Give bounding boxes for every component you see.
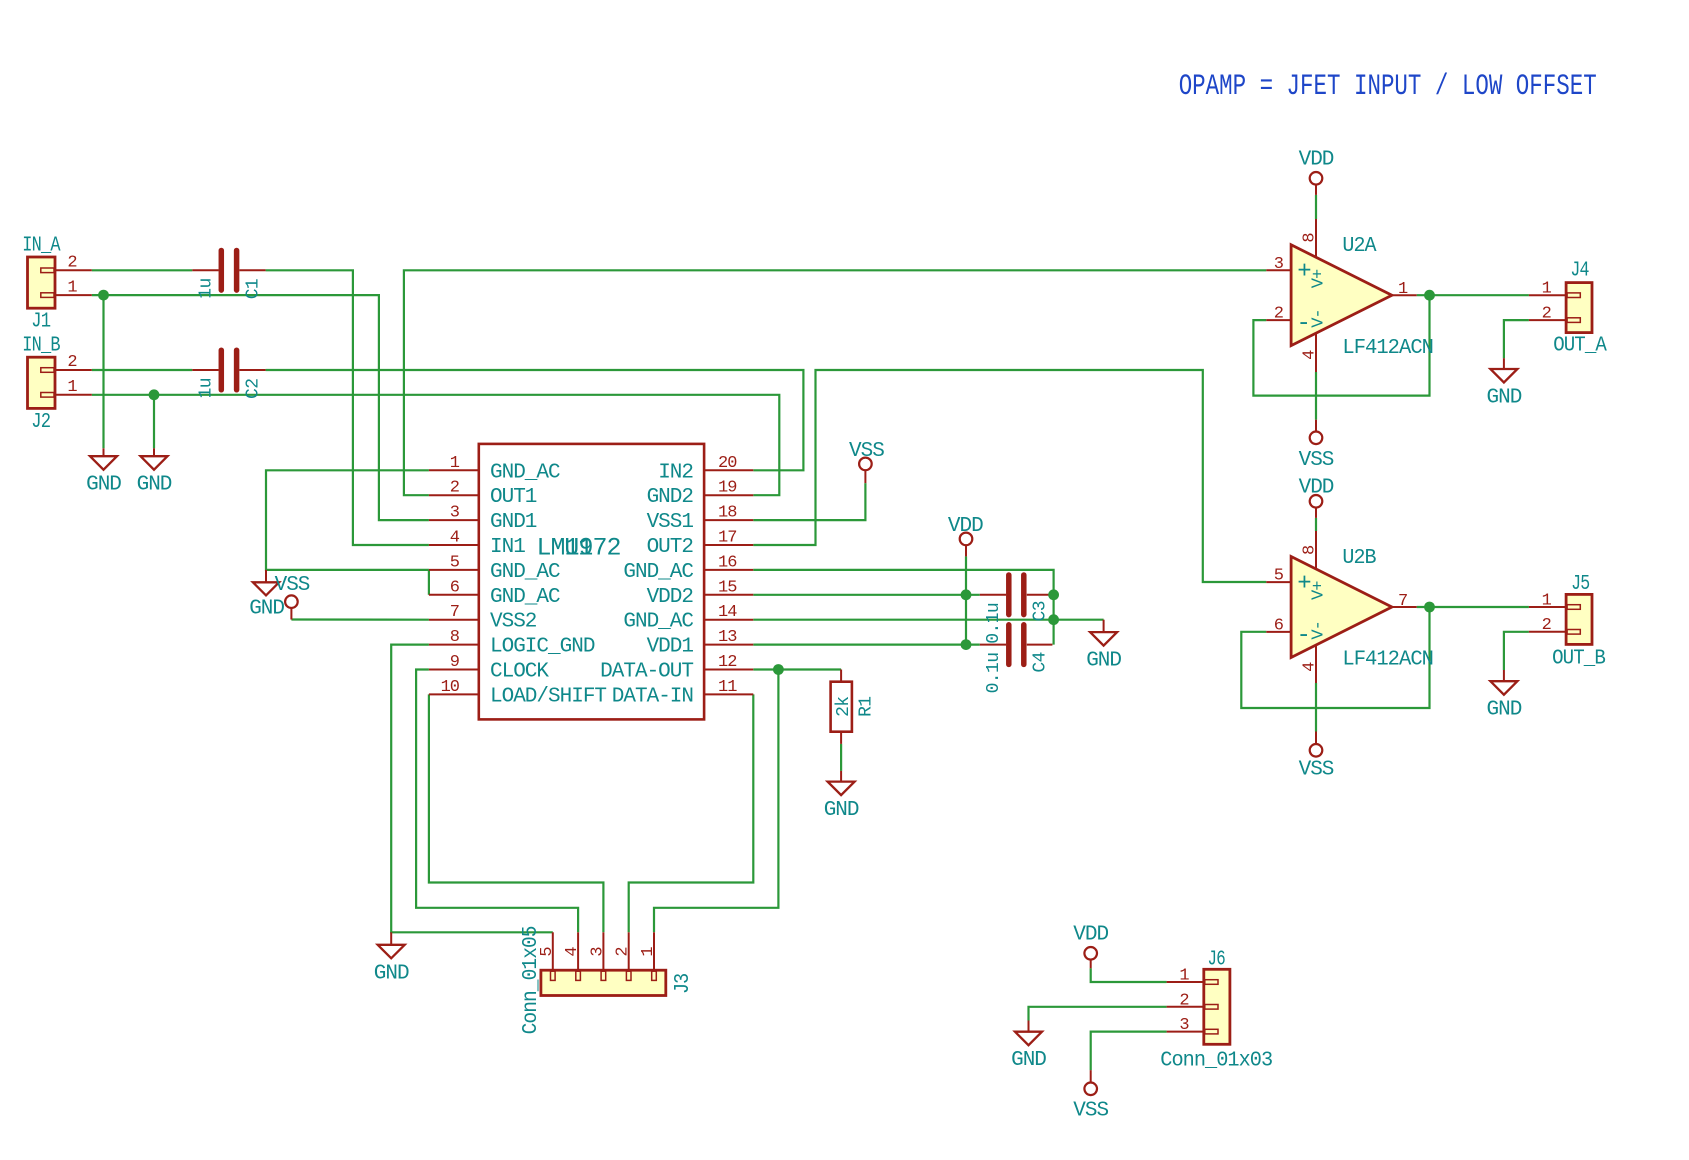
svg-text:3: 3 [1179, 1016, 1189, 1035]
svg-text:5: 5 [1274, 567, 1284, 586]
svg-text:1: 1 [1398, 280, 1408, 299]
svg-text:V+: V+ [1310, 581, 1329, 600]
svg-text:4: 4 [450, 529, 460, 548]
svg-text:GND: GND [86, 474, 121, 497]
svg-text:2: 2 [1274, 305, 1283, 324]
svg-text:J6: J6 [1208, 949, 1226, 972]
svg-text:LOGIC_GND: LOGIC_GND [490, 636, 595, 659]
svg-text:14: 14 [718, 603, 737, 622]
svg-text:4: 4 [563, 947, 582, 957]
svg-text:3: 3 [1274, 255, 1284, 274]
svg-text:2k: 2k [834, 696, 854, 716]
svg-text:C4: C4 [1031, 652, 1051, 672]
svg-text:IN1: IN1 [490, 536, 525, 559]
svg-text:OUT1: OUT1 [490, 486, 537, 509]
svg-text:VSS1: VSS1 [647, 511, 694, 534]
svg-text:C3: C3 [1031, 601, 1051, 621]
svg-text:VSS: VSS [1073, 1100, 1108, 1123]
svg-text:J3: J3 [672, 973, 695, 994]
svg-text:19: 19 [718, 479, 737, 498]
svg-text:J1: J1 [31, 311, 50, 334]
svg-text:V+: V+ [1310, 269, 1329, 288]
svg-text:U2B: U2B [1342, 547, 1376, 570]
svg-text:17: 17 [718, 529, 736, 548]
svg-text:7: 7 [1398, 592, 1407, 611]
svg-text:9: 9 [450, 653, 460, 672]
svg-text:VSS2: VSS2 [490, 611, 537, 634]
svg-text:1u: 1u [196, 278, 216, 298]
svg-text:GND_AC: GND_AC [490, 461, 560, 484]
svg-text:15: 15 [718, 578, 737, 597]
svg-text:IN_A: IN_A [22, 234, 61, 257]
svg-text:12: 12 [718, 653, 736, 672]
svg-text:Conn_01x05: Conn_01x05 [520, 926, 543, 1034]
svg-text:U2A: U2A [1342, 235, 1377, 258]
svg-text:OUT_A: OUT_A [1553, 335, 1607, 358]
svg-text:IN_B: IN_B [22, 335, 60, 358]
svg-text:1: 1 [67, 378, 77, 397]
svg-text:1: 1 [639, 947, 658, 957]
svg-text:OUT2: OUT2 [647, 536, 694, 559]
svg-text:VSS: VSS [849, 440, 884, 463]
svg-text:-: - [1296, 623, 1309, 650]
svg-text:J5: J5 [1571, 573, 1590, 596]
svg-text:11: 11 [718, 678, 737, 697]
svg-text:2: 2 [1542, 305, 1551, 324]
svg-text:8: 8 [450, 628, 460, 647]
svg-text:DATA-OUT: DATA-OUT [600, 661, 693, 684]
svg-text:2: 2 [67, 254, 76, 273]
svg-text:4: 4 [1301, 350, 1320, 360]
svg-text:7: 7 [450, 603, 459, 622]
svg-text:GND_AC: GND_AC [490, 586, 560, 609]
svg-text:GND_AC: GND_AC [623, 561, 693, 584]
svg-text:2: 2 [67, 353, 76, 372]
svg-text:GND: GND [1086, 650, 1121, 673]
svg-text:U1: U1 [564, 533, 592, 562]
svg-text:LF412ACN: LF412ACN [1342, 337, 1433, 360]
svg-text:C1: C1 [243, 279, 263, 299]
svg-text:GND_AC: GND_AC [490, 561, 560, 584]
svg-text:1: 1 [1542, 280, 1552, 299]
svg-text:GND: GND [824, 799, 859, 822]
svg-text:GND: GND [1486, 699, 1521, 722]
svg-text:J4: J4 [1570, 259, 1589, 282]
svg-text:GND: GND [1486, 387, 1521, 410]
svg-text:LOAD/SHIFT: LOAD/SHIFT [490, 685, 606, 708]
svg-text:CLOCK: CLOCK [490, 661, 549, 684]
svg-text:8: 8 [1301, 545, 1320, 555]
svg-text:OPAMP = JFET INPUT / LOW OFFSE: OPAMP = JFET INPUT / LOW OFFSET [1179, 70, 1597, 104]
svg-text:GND2: GND2 [647, 486, 694, 509]
svg-text:GND: GND [1011, 1049, 1046, 1072]
svg-text:VSS: VSS [275, 574, 310, 597]
svg-text:-: - [1296, 311, 1309, 338]
svg-text:GND_AC: GND_AC [623, 611, 693, 634]
svg-text:8: 8 [1301, 233, 1320, 243]
svg-text:OUT_B: OUT_B [1552, 647, 1605, 670]
svg-text:20: 20 [718, 454, 737, 473]
svg-text:1: 1 [67, 278, 77, 297]
svg-text:0.1u: 0.1u [984, 653, 1004, 694]
svg-text:0.1u: 0.1u [984, 603, 1004, 644]
svg-text:5: 5 [450, 553, 460, 572]
svg-text:18: 18 [718, 504, 737, 523]
svg-text:GND1: GND1 [490, 511, 537, 534]
svg-text:VDD: VDD [1299, 149, 1334, 172]
svg-text:10: 10 [441, 678, 460, 697]
svg-text:V-: V- [1310, 309, 1329, 327]
svg-text:2: 2 [614, 947, 633, 956]
svg-text:3: 3 [450, 504, 460, 523]
svg-text:R1: R1 [856, 696, 876, 716]
svg-text:GND: GND [137, 474, 172, 497]
svg-text:4: 4 [1301, 662, 1320, 672]
svg-text:VSS: VSS [1299, 759, 1334, 782]
svg-text:1: 1 [1542, 591, 1552, 610]
svg-text:VDD: VDD [1299, 476, 1334, 499]
svg-text:2: 2 [450, 479, 459, 498]
svg-text:1: 1 [1179, 967, 1189, 986]
svg-text:1u: 1u [196, 378, 216, 398]
svg-text:VDD: VDD [948, 515, 983, 538]
svg-text:V-: V- [1310, 621, 1329, 639]
svg-text:1: 1 [450, 454, 460, 473]
svg-text:2: 2 [1542, 616, 1551, 635]
svg-text:VDD2: VDD2 [647, 586, 694, 609]
svg-text:IN2: IN2 [658, 461, 693, 484]
svg-text:GND: GND [374, 962, 409, 985]
svg-text:16: 16 [718, 553, 737, 572]
svg-text:C2: C2 [243, 379, 263, 399]
svg-text:VDD1: VDD1 [647, 636, 694, 659]
svg-text:VSS: VSS [1299, 449, 1334, 472]
svg-text:3: 3 [588, 947, 607, 957]
svg-text:6: 6 [1274, 616, 1284, 635]
svg-text:J2: J2 [31, 411, 50, 434]
svg-text:13: 13 [718, 628, 737, 647]
svg-text:Conn_01x03: Conn_01x03 [1160, 1049, 1272, 1072]
svg-text:LF412ACN: LF412ACN [1342, 648, 1433, 671]
svg-text:VDD: VDD [1073, 924, 1108, 947]
svg-text:6: 6 [450, 578, 460, 597]
svg-text:2: 2 [1179, 991, 1188, 1010]
svg-text:DATA-IN: DATA-IN [612, 685, 693, 708]
svg-text:GND: GND [249, 598, 284, 621]
